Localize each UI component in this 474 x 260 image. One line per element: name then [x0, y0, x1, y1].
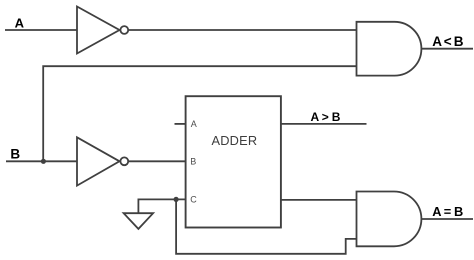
- svg-text:ADDER: ADDER: [212, 133, 258, 148]
- svg-text:A: A: [15, 16, 25, 31]
- svg-text:A = B: A = B: [432, 204, 463, 219]
- svg-text:C: C: [190, 194, 197, 204]
- svg-text:A: A: [191, 119, 197, 129]
- svg-text:A < B: A < B: [432, 34, 463, 49]
- svg-text:B: B: [190, 156, 196, 166]
- svg-text:B: B: [10, 146, 20, 161]
- svg-text:A > B: A > B: [311, 110, 341, 124]
